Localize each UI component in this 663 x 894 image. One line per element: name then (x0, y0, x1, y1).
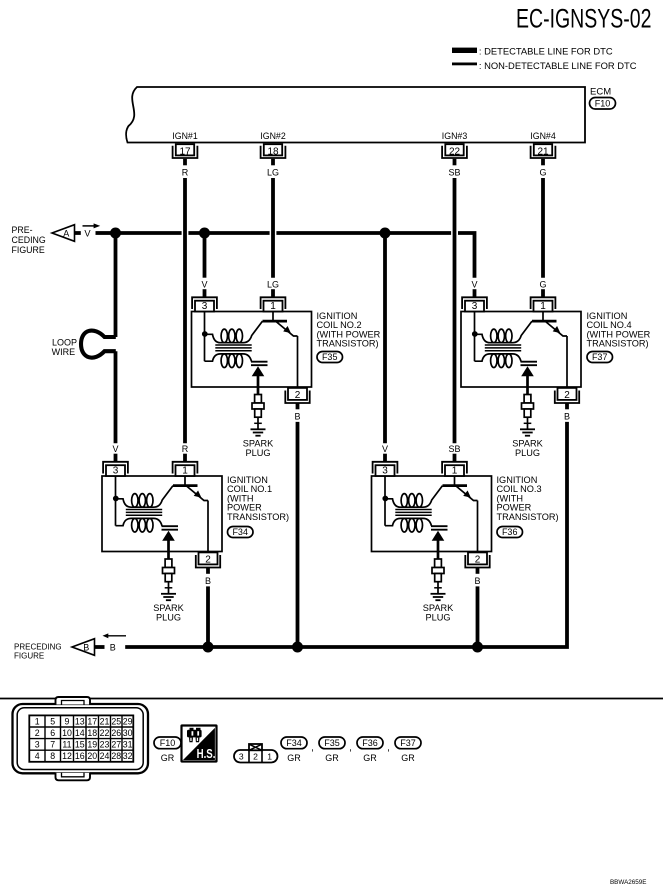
svg-text:,: , (311, 743, 314, 754)
svg-text:PLUG: PLUG (515, 448, 540, 458)
svg-text:PRECEDING: PRECEDING (14, 642, 62, 651)
svg-text:IGN#4: IGN#4 (530, 131, 556, 141)
svg-text:V: V (84, 229, 91, 239)
svg-text:,: , (387, 743, 390, 754)
svg-text:LG: LG (267, 168, 279, 178)
svg-text:20: 20 (87, 751, 97, 761)
svg-text:28: 28 (111, 751, 121, 761)
svg-text:26: 26 (111, 728, 121, 738)
svg-text:14: 14 (75, 728, 85, 738)
svg-text:G: G (539, 168, 546, 178)
svg-text:30: 30 (123, 728, 133, 738)
svg-text:12: 12 (62, 751, 72, 761)
svg-text:F35: F35 (324, 738, 340, 748)
svg-text:B: B (564, 411, 570, 421)
svg-text:2: 2 (475, 555, 481, 566)
svg-text:FIGURE: FIGURE (12, 245, 45, 255)
svg-text:H.S.: H.S. (197, 747, 216, 761)
svg-text:: NON-DETECTABLE LINE FOR DTC: : NON-DETECTABLE LINE FOR DTC (479, 60, 637, 71)
svg-text:11: 11 (62, 740, 71, 750)
svg-text:TRANSISTOR): TRANSISTOR) (587, 339, 649, 349)
svg-text:2: 2 (564, 390, 570, 401)
svg-text:TRANSISTOR): TRANSISTOR) (227, 512, 289, 522)
svg-text:GR: GR (287, 753, 301, 763)
svg-text:LOOP: LOOP (52, 338, 77, 348)
svg-text:F34: F34 (286, 738, 302, 748)
svg-text:27: 27 (111, 740, 121, 750)
svg-text:29: 29 (123, 716, 133, 726)
svg-text:G: G (539, 280, 546, 290)
svg-text:ECM: ECM (590, 86, 611, 97)
svg-text:,: , (349, 743, 352, 754)
svg-text:CEDING: CEDING (12, 235, 46, 245)
svg-text:GR: GR (401, 753, 415, 763)
svg-text:F34: F34 (232, 527, 248, 537)
svg-text:1: 1 (540, 301, 546, 312)
svg-text:3: 3 (113, 466, 119, 477)
svg-text:F37: F37 (400, 738, 416, 748)
svg-text:1: 1 (270, 301, 276, 312)
svg-text:16: 16 (75, 751, 85, 761)
svg-text:1: 1 (267, 751, 272, 761)
svg-text:F37: F37 (592, 352, 608, 362)
svg-text:23: 23 (100, 740, 110, 750)
svg-text:B: B (205, 576, 211, 586)
svg-text:2: 2 (35, 728, 40, 738)
svg-text:V: V (112, 444, 118, 454)
svg-text:3: 3 (202, 301, 208, 312)
svg-text:PRE-: PRE- (12, 225, 33, 235)
svg-text:17: 17 (179, 147, 191, 158)
svg-text:3: 3 (239, 751, 244, 761)
svg-text:6: 6 (50, 728, 55, 738)
svg-text:31: 31 (123, 740, 133, 750)
svg-text:19: 19 (87, 740, 97, 750)
svg-text:F35: F35 (322, 352, 338, 362)
svg-text:GR: GR (325, 753, 339, 763)
svg-text:18: 18 (87, 728, 97, 738)
svg-text:F10: F10 (595, 98, 611, 108)
svg-text:5: 5 (50, 716, 55, 726)
svg-text:1: 1 (452, 466, 458, 477)
svg-text:A: A (63, 229, 69, 239)
svg-text:15: 15 (75, 740, 85, 750)
svg-text:32: 32 (123, 751, 133, 761)
svg-text:F36: F36 (362, 738, 378, 748)
svg-text:EC-IGNSYS-02: EC-IGNSYS-02 (516, 4, 652, 34)
svg-text:B: B (110, 643, 116, 653)
svg-text:PLUG: PLUG (245, 448, 270, 458)
svg-text:2: 2 (253, 751, 258, 761)
svg-text:3: 3 (382, 466, 388, 477)
svg-text:7: 7 (50, 740, 55, 750)
svg-text:LG: LG (267, 280, 279, 290)
svg-text:1: 1 (182, 466, 188, 477)
svg-text:: DETECTABLE LINE FOR DTC: : DETECTABLE LINE FOR DTC (479, 46, 613, 57)
svg-text:25: 25 (111, 716, 121, 726)
svg-text:PLUG: PLUG (425, 612, 450, 622)
svg-text:3: 3 (472, 301, 478, 312)
svg-text:B: B (294, 411, 300, 421)
svg-text:24: 24 (100, 751, 110, 761)
svg-text:F10: F10 (160, 738, 176, 748)
svg-text:R: R (182, 444, 189, 454)
svg-text:17: 17 (87, 716, 97, 726)
svg-text:IGN#3: IGN#3 (442, 131, 468, 141)
svg-text:V: V (382, 444, 388, 454)
svg-text:10: 10 (62, 728, 72, 738)
svg-text:8: 8 (50, 751, 55, 761)
svg-text:B: B (83, 643, 89, 653)
svg-text:V: V (201, 280, 207, 290)
svg-text:18: 18 (267, 147, 279, 158)
svg-text:GR: GR (161, 753, 175, 763)
svg-text:22: 22 (100, 728, 110, 738)
svg-text:4: 4 (35, 751, 40, 761)
svg-text:TRANSISTOR): TRANSISTOR) (497, 512, 559, 522)
svg-text:13: 13 (75, 716, 85, 726)
svg-text:IGN#2: IGN#2 (260, 131, 286, 141)
svg-text:3: 3 (35, 740, 40, 750)
svg-text:GR: GR (363, 753, 377, 763)
svg-text:BBWA2659E: BBWA2659E (610, 879, 647, 886)
svg-text:B: B (474, 576, 480, 586)
svg-text:WIRE: WIRE (52, 347, 76, 357)
svg-text:21: 21 (100, 716, 110, 726)
svg-text:22: 22 (449, 147, 461, 158)
svg-text:1: 1 (35, 716, 40, 726)
svg-text:R: R (182, 168, 189, 178)
svg-text:9: 9 (65, 716, 70, 726)
svg-text:2: 2 (205, 555, 211, 566)
svg-text:SB: SB (448, 444, 460, 454)
svg-text:2: 2 (295, 390, 301, 401)
svg-text:V: V (471, 280, 477, 290)
svg-text:FIGURE: FIGURE (14, 652, 44, 661)
svg-text:IGN#1: IGN#1 (172, 131, 198, 141)
svg-text:TRANSISTOR): TRANSISTOR) (317, 339, 379, 349)
svg-text:21: 21 (537, 147, 549, 158)
svg-text:PLUG: PLUG (156, 612, 181, 622)
svg-text:SB: SB (448, 168, 460, 178)
svg-text:F36: F36 (502, 527, 518, 537)
